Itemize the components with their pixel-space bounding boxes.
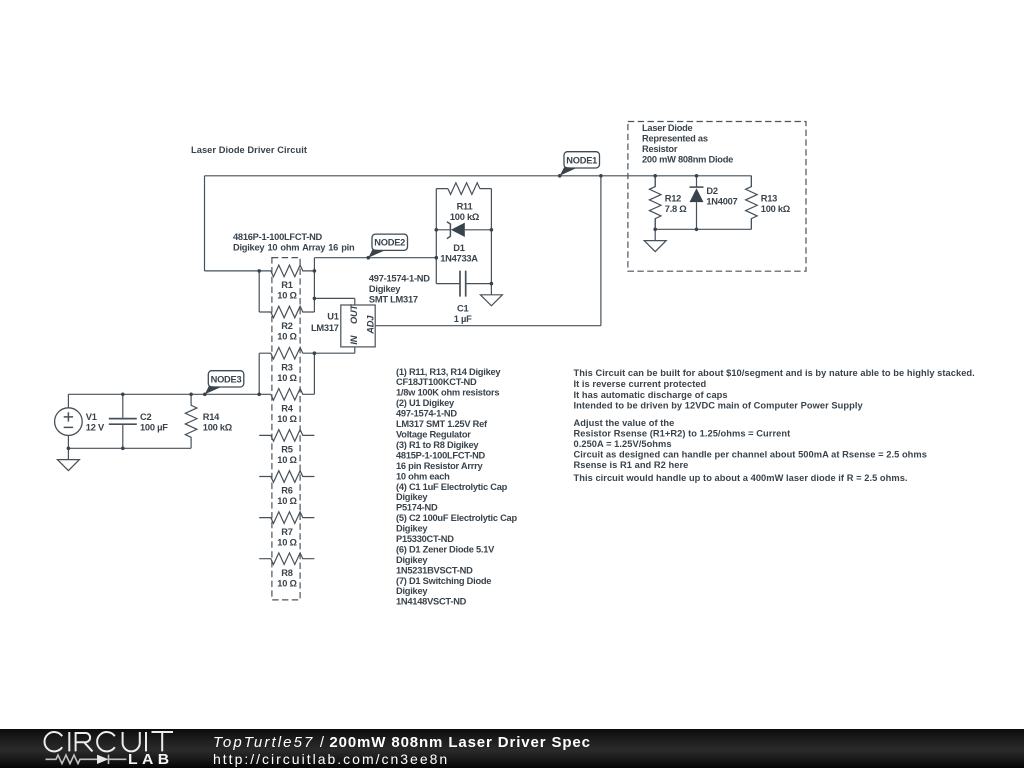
- svg-text:Digikey 10 ohm Array 16 pin: Digikey 10 ohm Array 16 pin: [233, 242, 355, 252]
- svg-text:LAB: LAB: [128, 752, 174, 768]
- svg-text:Laser Diode Driver Circuit: Laser Diode Driver Circuit: [191, 145, 307, 155]
- svg-text:R8: R8: [281, 568, 292, 578]
- svg-text:(5) C2 100uF Electrolytic Cap: (5) C2 100uF Electrolytic Cap: [396, 513, 517, 523]
- svg-text:IN: IN: [349, 335, 359, 344]
- svg-text:Resistor: Resistor: [642, 144, 678, 154]
- svg-text:This circuit would handle up t: This circuit would handle up to about a …: [574, 473, 908, 483]
- svg-text:D2: D2: [706, 186, 717, 196]
- svg-text:C1: C1: [457, 304, 468, 314]
- svg-text:C2: C2: [140, 412, 151, 422]
- svg-text:ADJ: ADJ: [366, 315, 376, 335]
- svg-text:NODE1: NODE1: [566, 155, 597, 165]
- svg-text:Rsense is R1 and R2 here: Rsense is R1 and R2 here: [574, 460, 689, 470]
- svg-text:LM317 SMT 1.25V Ref: LM317 SMT 1.25V Ref: [396, 419, 488, 429]
- svg-text:CF18JT100KCT-ND: CF18JT100KCT-ND: [396, 377, 477, 387]
- svg-text:R12: R12: [665, 194, 681, 204]
- svg-text:Digikey: Digikey: [396, 524, 428, 534]
- svg-text:1N4148VSCT-ND: 1N4148VSCT-ND: [396, 597, 467, 607]
- svg-text:1N4007: 1N4007: [706, 197, 737, 207]
- svg-text:(6) D1 Zener Diode 5.1V: (6) D1 Zener Diode 5.1V: [396, 545, 495, 555]
- svg-text:It is reverse current protecte: It is reverse current protected: [574, 379, 707, 389]
- svg-text:100 kΩ: 100 kΩ: [203, 422, 233, 432]
- svg-text:(7) D1 Switching Diode: (7) D1 Switching Diode: [396, 576, 491, 586]
- svg-text:Laser Diode: Laser Diode: [642, 123, 693, 133]
- svg-text:SMT LM317: SMT LM317: [369, 294, 418, 304]
- svg-text:R13: R13: [761, 194, 777, 204]
- svg-text:497-1574-1-ND: 497-1574-1-ND: [369, 273, 430, 283]
- svg-text:Voltage Regulator: Voltage Regulator: [396, 430, 471, 440]
- svg-text:It has automatic discharge of: It has automatic discharge of caps: [574, 390, 728, 400]
- svg-text:LM317: LM317: [311, 323, 339, 333]
- svg-text:497-1574-1-ND: 497-1574-1-ND: [396, 409, 457, 419]
- svg-text:10 Ω: 10 Ω: [277, 291, 297, 301]
- svg-text:R14: R14: [203, 412, 220, 422]
- svg-text:OUT: OUT: [349, 303, 359, 323]
- svg-text:Resistor Rsense (R1+R2) to 1.2: Resistor Rsense (R1+R2) to 1.25/ohms = C…: [574, 428, 791, 438]
- svg-text:P5174-ND: P5174-ND: [396, 503, 438, 513]
- svg-text:R2: R2: [281, 321, 292, 331]
- svg-text:Digikey: Digikey: [396, 586, 428, 596]
- svg-text:Intended to be driven by 12VDC: Intended to be driven by 12VDC main of C…: [574, 401, 864, 411]
- svg-text:Represented as: Represented as: [642, 134, 708, 144]
- svg-text:1/8w 100K ohm resistors: 1/8w 100K ohm resistors: [396, 388, 499, 398]
- svg-text:200 mW 808nm Diode: 200 mW 808nm Diode: [642, 155, 733, 165]
- svg-text:10 ohm each: 10 ohm each: [396, 471, 450, 481]
- svg-text:Circuit as designed can handle: Circuit as designed can handle per chann…: [574, 449, 927, 459]
- svg-text:NODE2: NODE2: [374, 238, 405, 248]
- svg-text:10 Ω: 10 Ω: [277, 373, 297, 383]
- svg-text:Digikey: Digikey: [369, 284, 401, 294]
- svg-text:1N5231BVSCT-ND: 1N5231BVSCT-ND: [396, 565, 473, 575]
- svg-text:100 kΩ: 100 kΩ: [450, 212, 480, 222]
- svg-text:10 Ω: 10 Ω: [277, 414, 297, 424]
- svg-text:R1: R1: [281, 280, 292, 290]
- svg-text:1 µF: 1 µF: [454, 314, 472, 324]
- svg-text:100 kΩ: 100 kΩ: [761, 204, 791, 214]
- svg-text:(1) R11, R13, R14 Digikey: (1) R11, R13, R14 Digikey: [396, 367, 501, 377]
- svg-text:10 Ω: 10 Ω: [277, 496, 297, 506]
- svg-text:(4) C1 1uF Electrolytic Cap: (4) C1 1uF Electrolytic Cap: [396, 482, 508, 492]
- svg-text:12 V: 12 V: [86, 422, 105, 432]
- svg-text:V1: V1: [86, 412, 97, 422]
- svg-text:D1: D1: [453, 243, 464, 253]
- svg-text:R5: R5: [281, 445, 292, 455]
- svg-text:R3: R3: [281, 362, 292, 372]
- svg-text:Adjust the value of the: Adjust the value of the: [574, 418, 675, 428]
- svg-text:This Circuit can be built for: This Circuit can be built for about $10/…: [574, 368, 975, 378]
- svg-text:(2) U1 Digikey: (2) U1 Digikey: [396, 398, 455, 408]
- svg-text:10 Ω: 10 Ω: [277, 537, 297, 547]
- svg-text:0.250A = 1.25V/5ohms: 0.250A = 1.25V/5ohms: [574, 439, 672, 449]
- svg-text:10 Ω: 10 Ω: [277, 455, 297, 465]
- svg-text:R6: R6: [281, 486, 292, 496]
- svg-text:Digikey: Digikey: [396, 555, 428, 565]
- svg-text:7.8 Ω: 7.8 Ω: [665, 204, 688, 214]
- svg-text:P15330CT-ND: P15330CT-ND: [396, 534, 454, 544]
- svg-text:Digikey: Digikey: [396, 492, 428, 502]
- svg-text:1N4733A: 1N4733A: [440, 254, 478, 264]
- svg-text:R11: R11: [457, 201, 473, 211]
- svg-text:10 Ω: 10 Ω: [277, 578, 297, 588]
- svg-text:16 pin Resistor Arrry: 16 pin Resistor Arrry: [396, 461, 483, 471]
- svg-text:4815P-1-100LFCT-ND: 4815P-1-100LFCT-ND: [396, 450, 486, 460]
- svg-text:U1: U1: [327, 311, 338, 321]
- svg-text:NODE3: NODE3: [211, 374, 242, 384]
- svg-text:(3) R1 to R8 Digikey: (3) R1 to R8 Digikey: [396, 440, 479, 450]
- svg-text:10 Ω: 10 Ω: [277, 332, 297, 342]
- svg-text:R4: R4: [281, 404, 293, 414]
- svg-text:4816P-1-100LFCT-ND: 4816P-1-100LFCT-ND: [233, 232, 323, 242]
- svg-text:100 µF: 100 µF: [140, 422, 168, 432]
- svg-text:R7: R7: [281, 527, 292, 537]
